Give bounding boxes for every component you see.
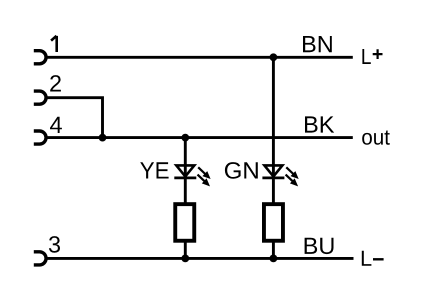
pin 3 socket: [34, 252, 46, 265]
label BK: [305, 116, 334, 132]
minus sign of L-: [373, 258, 384, 260]
label BN: [303, 36, 332, 52]
wire: GN branch vertical from BN wire to BU wire: [272, 57, 275, 258]
wire: YE branch vertical from BK wire to BU wire: [184, 138, 187, 259]
resistor R1 (YE branch): [175, 204, 194, 241]
LED GN (D2): [262, 165, 297, 185]
wire: pin 2 branch down to BK wire: [46, 98, 102, 138]
pin 4 socket: [34, 131, 46, 144]
label BU: [305, 238, 334, 254]
junction: pin2 branch on BK wire: [99, 134, 107, 142]
pin 1 label: [51, 36, 57, 52]
junction: YE branch on BK wire: [181, 134, 189, 142]
LED GN label: [225, 162, 258, 179]
plus sign of L+: [373, 49, 383, 59]
pin 2 socket: [34, 91, 46, 104]
wire BN: pin 1 to L+: [46, 56, 353, 59]
label L-: [362, 251, 372, 266]
label out: [362, 131, 390, 145]
junction: GN branch on BN wire: [270, 53, 278, 61]
junction: YE branch on BU wire: [181, 255, 189, 263]
resistor R2 (GN branch): [264, 204, 283, 241]
junction: GN branch on BU wire: [270, 255, 278, 263]
wire BU: pin 3 to L-: [46, 257, 353, 260]
label L+: [362, 49, 370, 64]
LED YE (D1): [174, 165, 209, 185]
wire BK: pin 4 to out: [46, 136, 353, 139]
pin 4 label: [50, 117, 62, 133]
LED YE label: [140, 162, 168, 178]
pin 3 label: [49, 236, 60, 253]
pin 1 socket: [34, 51, 46, 64]
pin 2 label: [50, 75, 61, 91]
